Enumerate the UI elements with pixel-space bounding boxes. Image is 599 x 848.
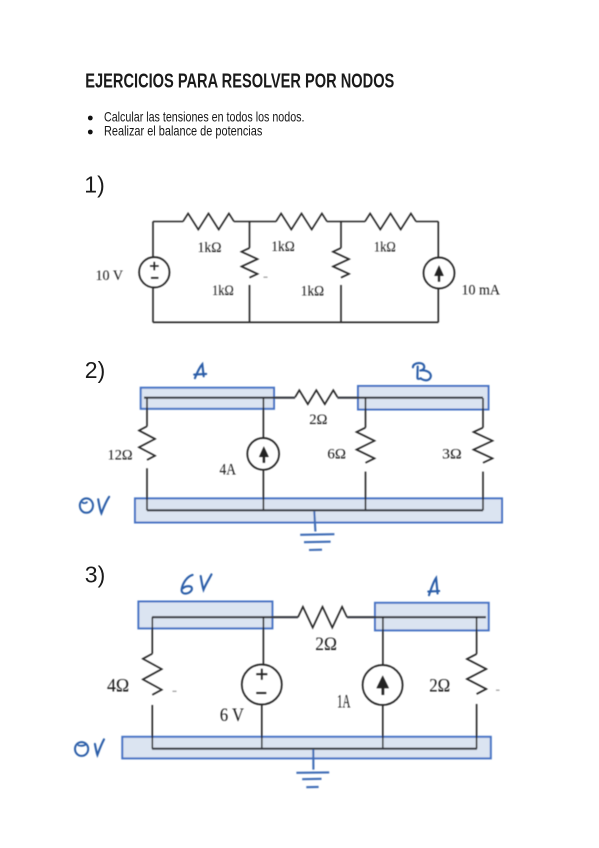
svg-text:1kΩ: 1kΩ (301, 283, 324, 299)
node 6V wire (152, 616, 298, 618)
wire R2 to R3 (node 2) (327, 221, 365, 223)
resistor 6 ohm (357, 428, 375, 463)
current source 1A circle (363, 665, 403, 705)
resistor R2 1k horizontal (276, 214, 327, 230)
node 1 branch upper wire (249, 222, 251, 249)
resistor R1 1k horizontal (183, 214, 234, 230)
node 2 branch upper wire (340, 222, 342, 249)
handwritten node label A (194, 364, 206, 378)
resistor 3 ohm (474, 428, 493, 463)
ground symbol (314, 511, 315, 531)
node B wire (337, 397, 483, 399)
2 ohm right branch upper (476, 617, 478, 654)
wire R3 to I1 (416, 221, 438, 223)
6 ohm branch lower (365, 472, 367, 511)
stray mark left (173, 690, 177, 692)
resistor 2 ohm right (467, 654, 486, 694)
svg-text:1A: 1A (337, 692, 351, 712)
svg-text:6 V: 6 V (220, 706, 245, 726)
handwritten node label 6V (182, 575, 193, 594)
svg-text:1kΩ: 1kΩ (271, 239, 295, 255)
wire right rail upper (437, 222, 439, 258)
resistor 2 ohm top (298, 607, 347, 628)
node 1 branch lower wire (249, 285, 251, 322)
voltage source 6V branch upper (262, 617, 264, 664)
resistor R5 1k vertical (333, 248, 349, 278)
resistor R2ohm horizontal (295, 390, 337, 404)
svg-text:6Ω: 6Ω (327, 447, 346, 463)
ground node highlight (0V) (122, 737, 491, 759)
resistor R4 1k vertical (242, 248, 258, 278)
svg-text:12Ω: 12Ω (108, 447, 133, 463)
handwritten 0V label (75, 742, 88, 756)
wire bottom rail (153, 321, 438, 323)
V1 minus sign (151, 277, 158, 279)
4A arrow (263, 456, 265, 463)
voltage source 6V circle (242, 665, 282, 705)
svg-text:1kΩ: 1kΩ (374, 239, 396, 255)
I1 arrow (438, 276, 440, 282)
4 ohm branch lower (151, 705, 153, 749)
current source 4A branch upper (262, 398, 264, 438)
node B highlight (358, 386, 489, 410)
node A wire (347, 616, 486, 618)
voltage source V1 10V circle (139, 257, 169, 287)
node A highlight (375, 603, 489, 631)
current source I1 10mA circle (424, 258, 455, 289)
handwritten node label A (428, 578, 439, 595)
handwritten node label B (413, 363, 431, 380)
ground node highlight (0V) (135, 498, 502, 522)
bottom node wire (152, 748, 477, 750)
wire left rail upper (152, 222, 154, 258)
svg-text:2Ω: 2Ω (429, 677, 450, 697)
svg-text:3Ω: 3Ω (442, 447, 462, 463)
3 ohm branch lower (482, 472, 484, 511)
current source 1A branch lower (382, 705, 384, 749)
svg-text:2Ω: 2Ω (315, 635, 337, 655)
current source 4A circle (247, 438, 279, 470)
resistor 4 ohm (143, 654, 162, 695)
node 2 branch lower wire (340, 285, 342, 322)
svg-text:2): 2) (85, 357, 105, 383)
stray mark right (496, 689, 500, 691)
bullet 2 (88, 130, 93, 135)
wire right rail lower (437, 289, 439, 323)
6 ohm branch upper (365, 398, 367, 428)
svg-text:1kΩ: 1kΩ (212, 283, 234, 299)
6V minus sign (256, 692, 266, 694)
svg-text:3): 3) (85, 562, 105, 588)
svg-text:1): 1) (84, 172, 104, 198)
current source 1A branch upper (382, 617, 384, 665)
node A highlight (141, 388, 274, 409)
node A wire (144, 397, 295, 399)
svg-text:Realizar el balance de potenci: Realizar el balance de potencias (104, 123, 262, 139)
bullet 1 (88, 116, 93, 121)
12 ohm branch upper (146, 398, 148, 426)
svg-text:4Ω: 4Ω (107, 677, 129, 697)
6V plus sign (256, 669, 267, 680)
stray mark (264, 276, 268, 278)
node 6V highlight (138, 602, 272, 629)
svg-text:1kΩ: 1kΩ (198, 240, 222, 256)
resistor 12 ohm (139, 426, 155, 460)
resistor R3 1k horizontal (365, 214, 416, 230)
wire top-left (V1 to R1) (153, 221, 183, 223)
svg-text:4A: 4A (220, 461, 237, 478)
2 ohm right branch lower (476, 704, 478, 749)
12 ohm branch lower (146, 468, 148, 510)
current source 4A branch lower (262, 470, 264, 511)
4 ohm branch upper (151, 617, 153, 654)
wire R1 to R2 (node 1) (234, 221, 276, 223)
handwritten 0V label (80, 498, 93, 512)
svg-text:10 V: 10 V (96, 268, 124, 284)
V1 plus sign (150, 262, 159, 270)
svg-text:2Ω: 2Ω (309, 412, 327, 428)
3 ohm branch upper (482, 398, 484, 428)
ground symbol (312, 750, 314, 770)
voltage source 6V branch lower (261, 705, 263, 749)
1A arrow (382, 688, 385, 695)
svg-text:10 mA: 10 mA (462, 282, 501, 298)
wire left rail lower (152, 288, 154, 323)
svg-text:EJERCICIOS PARA RESOLVER POR N: EJERCICIOS PARA RESOLVER POR NODOS (85, 70, 394, 92)
bottom node wire (147, 509, 483, 511)
